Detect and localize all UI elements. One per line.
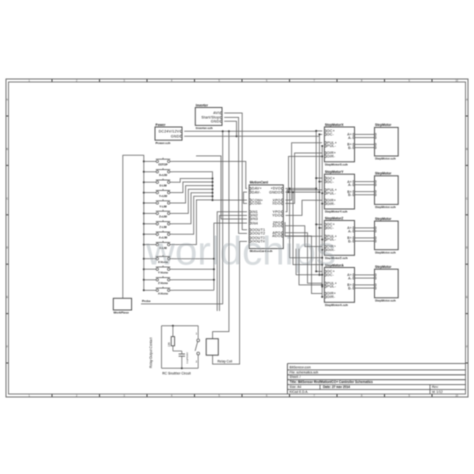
svg-text:B-: B- (348, 193, 353, 197)
svg-text:B-: B- (348, 146, 353, 150)
svg-text:Z Home: Z Home (158, 281, 168, 285)
svg-text:DIR-: DIR- (327, 295, 336, 299)
svg-text:C: C (6, 197, 8, 200)
svg-text:B-: B- (348, 286, 353, 290)
svg-text:StepMotor: StepMotor (375, 172, 392, 176)
svg-text:StepMotor.sch: StepMotor.sch (375, 205, 396, 209)
svg-text:A Home: A Home (158, 292, 169, 296)
svg-text:StepMotor.sch: StepMotor.sch (375, 157, 396, 161)
svg-text:IN4: IN4 (252, 221, 258, 225)
svg-text:DAV-: DAV- (252, 190, 262, 194)
svg-text:Z+LIM: Z+LIM (159, 215, 168, 219)
svg-text:PUL-: PUL- (327, 238, 337, 242)
svg-text:XDO: XDO (272, 202, 280, 206)
svg-text:X+LIM: X+LIM (159, 173, 168, 177)
svg-text:Probe: Probe (142, 299, 151, 303)
svg-text:Size: A4: Size: A4 (290, 385, 302, 389)
svg-text:DC-: DC- (327, 133, 335, 137)
svg-text:RC Snubber Circuit: RC Snubber Circuit (162, 371, 190, 375)
svg-text:Y+LIM: Y+LIM (159, 194, 168, 198)
svg-text:Power: Power (156, 123, 167, 127)
svg-text:PUL-: PUL- (327, 144, 337, 148)
svg-text:DIR-: DIR- (327, 202, 336, 206)
svg-text:MotionCard: MotionCard (250, 181, 268, 185)
svg-text:StepMotor.sch: StepMotor.sch (375, 298, 396, 302)
svg-text:StepMotor: StepMotor (375, 265, 392, 269)
svg-text:10R: 10R (168, 342, 171, 347)
svg-text:Date: 27 nov 2014: Date: 27 nov 2014 (323, 385, 350, 389)
svg-text:OOUT4: OOUT4 (252, 240, 265, 244)
svg-text:Title: BitSensor RndMotionICO+: Title: BitSensor RndMotionICO+ Controlle… (290, 380, 373, 384)
svg-text:StepMotorY: StepMotorY (325, 170, 344, 174)
svg-text:StepMotor: StepMotor (375, 217, 392, 221)
svg-text:StepMotorY.sch: StepMotorY.sch (325, 210, 348, 214)
svg-text:StepMotorA.sch: StepMotorA.sch (325, 303, 348, 307)
svg-text:B-: B- (348, 239, 353, 243)
svg-text:Rev:: Rev: (432, 385, 439, 389)
svg-text:Id: 1/12: Id: 1/12 (432, 390, 443, 394)
svg-text:DC-: DC- (327, 180, 335, 184)
svg-text:A-: A- (348, 276, 353, 280)
svg-text:GND: GND (211, 120, 220, 124)
svg-text:Y-LIM: Y-LIM (159, 204, 167, 208)
svg-text:DC-: DC- (327, 273, 335, 277)
svg-text:COM-: COM- (252, 202, 263, 206)
svg-text:D: D (466, 247, 468, 250)
svg-text:StepMotorX: StepMotorX (325, 123, 344, 127)
svg-text:Z-LIM: Z-LIM (159, 225, 167, 229)
svg-text:Inverter: Inverter (196, 103, 209, 107)
svg-text:KiCad E.D.A.: KiCad E.D.A. (290, 390, 309, 394)
svg-text:StepMotorZ: StepMotorZ (325, 216, 343, 220)
svg-text:Power.sch: Power.sch (156, 141, 171, 145)
svg-text:PUL-: PUL- (327, 285, 337, 289)
svg-text:StepMotor.sch: StepMotor.sch (375, 250, 396, 254)
svg-text:Relay Output Contact: Relay Output Contact (149, 337, 153, 368)
svg-text:MotionCard.sch: MotionCard.sch (250, 249, 273, 253)
svg-text:Inverter.sch: Inverter.sch (196, 126, 213, 130)
svg-text:ADO: ADO (272, 234, 280, 238)
svg-text:A-LIM: A-LIM (159, 246, 167, 250)
svg-text:PUL-: PUL- (327, 191, 337, 195)
svg-text:X Home: X Home (158, 260, 169, 264)
svg-text:A+LIM: A+LIM (159, 236, 168, 240)
svg-text:OOUT2: OOUT2 (252, 232, 265, 236)
svg-text:ZDO: ZDO (273, 224, 281, 228)
svg-text:A-: A- (348, 183, 353, 187)
svg-text:File: schematics.sch: File: schematics.sch (290, 370, 319, 374)
svg-text:StepMotorX.sch: StepMotorX.sch (325, 162, 348, 166)
svg-text:StepMotor: StepMotor (375, 123, 392, 127)
svg-text:A-: A- (348, 229, 353, 233)
svg-text:DC-: DC- (327, 226, 335, 230)
svg-text:GND: GND (171, 134, 180, 138)
svg-text:DC24V/12V: DC24V/12V (159, 130, 180, 134)
svg-text:StepMotorA: StepMotorA (325, 263, 344, 267)
svg-text:D: D (6, 247, 8, 250)
svg-text:Relay Coil: Relay Coil (218, 360, 233, 364)
svg-text:WorkPiece: WorkPiece (114, 311, 130, 315)
svg-text:GNDO: GNDO (269, 190, 281, 194)
svg-text:C: C (466, 197, 468, 200)
svg-text:ESTOP: ESTOP (158, 163, 167, 167)
svg-text:Y Home: Y Home (158, 271, 168, 275)
svg-text:StepMotorZ.sch: StepMotorZ.sch (325, 256, 348, 260)
svg-text:BitSensor.com: BitSensor.com (290, 365, 312, 369)
svg-text:0.1uF/630V: 0.1uF/630V (187, 352, 189, 364)
svg-text:AVI: AVI (213, 111, 219, 115)
svg-text:DIR-: DIR- (327, 248, 336, 252)
svg-text:Sheet: /: Sheet: / (290, 375, 301, 379)
svg-text:YDO: YDO (272, 214, 280, 218)
svg-text:A-: A- (348, 136, 353, 140)
svg-text:DIR-: DIR- (327, 155, 336, 159)
svg-text:X-LIM: X-LIM (159, 184, 167, 188)
